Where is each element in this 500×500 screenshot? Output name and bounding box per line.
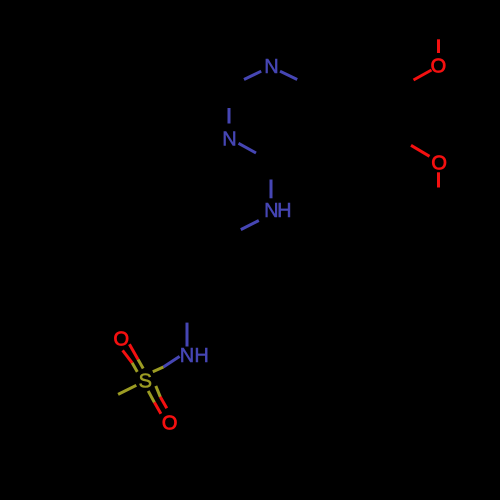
svg-text:S: S [139, 370, 152, 392]
svg-text:N: N [264, 56, 278, 78]
svg-text:O: O [162, 413, 178, 435]
svg-text:N: N [222, 128, 236, 150]
svg-text:H: H [277, 200, 291, 222]
svg-text:O: O [431, 153, 447, 175]
svg-text:H: H [194, 345, 208, 367]
svg-text:O: O [114, 329, 130, 351]
svg-text:O: O [431, 55, 447, 77]
svg-text:N: N [180, 345, 194, 367]
